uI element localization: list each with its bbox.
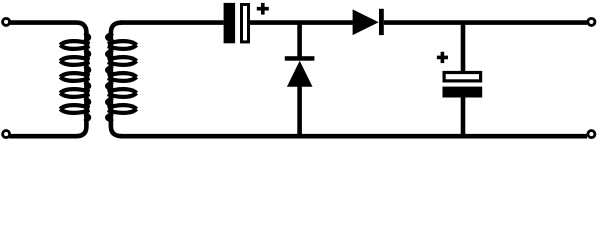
inductor L2 secondary crossover nubs <box>107 33 113 121</box>
capacitor C1 negative plate (filled) <box>224 3 236 43</box>
capacitor C1 positive plate (open) <box>242 5 249 42</box>
wire top rail from secondary to capacitor C1 <box>120 20 224 25</box>
diode D2 triangle (anode, pointing right) <box>353 9 379 35</box>
diode D2 cathode bar <box>379 9 384 35</box>
polarity plus of C1 <box>257 3 269 15</box>
diode D1 cathode bar <box>285 56 315 61</box>
diode D1 triangle (anode, pointing up) <box>287 61 313 87</box>
wire shunt branch lower (D1 anode to bottom rail) <box>297 86 302 136</box>
capacitor C2 positive plate (open) <box>444 73 481 81</box>
wire shunt branch C2 upper (node B down to C2) <box>461 23 466 72</box>
terminal input top <box>3 18 10 25</box>
capacitor C2 negative plate (filled) <box>443 87 483 98</box>
wire top rail from C1 to diode D2 <box>250 20 353 25</box>
wire shunt branch upper (node A to D1 cathode) <box>297 23 302 57</box>
inductor L1 primary winding loops <box>60 41 89 113</box>
inductor L1 primary crossover nubs <box>84 33 89 121</box>
wire top rail from D2 to output terminal <box>384 20 587 25</box>
wire primary side: input leads, bends and winding stem <box>9 23 86 137</box>
wire shunt branch C2 lower (C2 to bottom rail) <box>461 97 466 136</box>
polarity plus of C2 <box>437 52 448 63</box>
terminal input bottom <box>3 131 10 138</box>
terminal output bottom <box>588 131 595 138</box>
inductor L2 secondary winding loops <box>108 41 137 113</box>
wire secondary side: bends and winding stem <box>111 23 122 137</box>
wire bottom rail from secondary to output terminal <box>120 134 587 139</box>
terminal output top <box>588 18 595 25</box>
